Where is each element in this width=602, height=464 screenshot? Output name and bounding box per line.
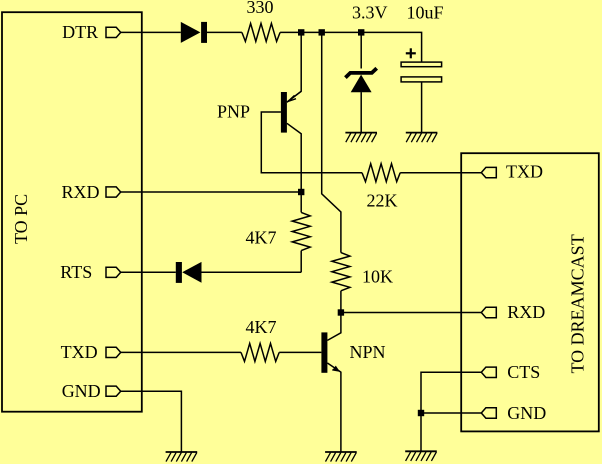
svg-text:DTR: DTR <box>62 22 98 42</box>
pin CTS (Dreamcast) connector <box>481 367 496 377</box>
ground (NPN emitter) <box>325 452 357 462</box>
svg-text:10K: 10K <box>362 267 393 287</box>
svg-text:4K7: 4K7 <box>246 228 277 248</box>
node junction rail/pull-up <box>319 29 325 35</box>
wire zener anode to ground <box>360 92 362 132</box>
resistor 4K7 upper (vertical) <box>292 212 310 250</box>
capacitor 10uF plate top <box>401 62 442 67</box>
wire node B to RXD (Dreamcast) <box>341 312 481 314</box>
node A junction RXD/collector/4K7 <box>298 189 304 195</box>
pin RXD (PC) connector <box>106 187 121 197</box>
svg-text:RTS: RTS <box>60 262 92 282</box>
svg-text:TXD: TXD <box>61 342 98 362</box>
wire resistor 4K7 upper to RTS wire <box>300 251 302 273</box>
wire RXD (PC) to node A <box>121 191 302 193</box>
svg-text:22K: 22K <box>367 191 398 211</box>
TO PC box <box>2 12 142 412</box>
svg-text:330: 330 <box>247 0 274 17</box>
svg-text:TXD: TXD <box>506 162 543 182</box>
wire rail to zener cathode <box>360 32 362 68</box>
node B junction 10K/collector/RXD-DC <box>338 309 344 315</box>
svg-text:TO PC: TO PC <box>11 194 31 244</box>
TO DREAMCAST box <box>461 153 599 431</box>
wire NPN emitter to ground <box>327 363 341 452</box>
wire GND (PC) to ground <box>121 391 182 452</box>
diode D1 (DTR series) <box>181 22 201 43</box>
wire node B to NPN collector <box>327 313 341 341</box>
diode D2 (RTS series) <box>176 262 182 283</box>
node C junction CTS/GND-DC <box>418 410 424 416</box>
pin RXD (Dreamcast) connector <box>481 307 496 317</box>
wire TXD (PC) to resistor 4K7 lower <box>121 351 241 353</box>
wire rail pull-up down to resistor 10K <box>322 32 341 252</box>
ground (Dreamcast GND) <box>405 451 437 461</box>
ground (PC GND) <box>166 452 198 462</box>
wire DTR to diode D1 <box>121 31 181 33</box>
wire diode D1 to resistor 330 <box>207 31 242 33</box>
transistor PNP <box>281 91 301 132</box>
capacitor plus sign <box>406 48 416 58</box>
transistor NPN <box>321 332 339 372</box>
node junction rail/zener <box>358 29 364 35</box>
wire CTS (Dreamcast) to node C <box>421 372 481 413</box>
wire RTS to diode D2 <box>121 271 176 273</box>
wire resistor 4K7 lower to NPN base <box>279 351 321 353</box>
wire 3.3V rail: resistor 330 to capacitor, corner down <box>280 32 422 62</box>
svg-text:3.3V: 3.3V <box>352 2 388 22</box>
pin DTR (PC) connector <box>106 27 121 37</box>
svg-text:PNP: PNP <box>217 102 250 122</box>
wire capacitor to ground <box>421 82 423 132</box>
zener diode 3.3V cathode bar <box>345 68 376 77</box>
node junction rail/emitter <box>298 29 304 35</box>
wire PNP base loop to 22K <box>261 112 362 173</box>
wire node A to resistor 4K7 upper <box>300 192 302 212</box>
pin GND (Dreamcast) connector <box>481 408 496 418</box>
pin TXD (PC) connector <box>106 347 121 357</box>
pin TXD (Dreamcast) connector <box>481 167 496 177</box>
svg-text:CTS: CTS <box>507 362 540 382</box>
pin GND (PC) connector <box>106 386 121 396</box>
wire rail to PNP emitter <box>287 32 301 102</box>
svg-text:TO DREAMCAST: TO DREAMCAST <box>568 234 588 373</box>
ground (zener) <box>345 133 377 143</box>
svg-text:GND: GND <box>507 403 546 423</box>
wire PNP collector to node A <box>287 123 301 192</box>
svg-text:RXD: RXD <box>62 182 100 202</box>
resistor 4K7 lower <box>241 343 279 361</box>
resistor 10K (vertical) <box>332 253 350 291</box>
svg-text:4K7: 4K7 <box>246 317 277 337</box>
svg-text:RXD: RXD <box>507 302 545 322</box>
resistor 22K <box>362 164 400 182</box>
wire 22K to TXD (Dreamcast) <box>400 172 481 174</box>
zener diode 3.3V triangle <box>351 75 372 93</box>
pin RTS (PC) connector <box>106 267 121 277</box>
ground (capacitor) <box>406 133 438 143</box>
wire diode D2 to 4K7 corner <box>202 271 302 273</box>
wire resistor 10K to node B <box>340 291 342 313</box>
resistor 330 <box>242 23 280 41</box>
wire GND (Dreamcast) to node C and ground <box>421 413 481 451</box>
capacitor 10uF plate bottom <box>401 77 442 82</box>
svg-text:NPN: NPN <box>350 342 386 362</box>
svg-text:GND: GND <box>62 381 101 401</box>
svg-text:10uF: 10uF <box>407 2 444 22</box>
